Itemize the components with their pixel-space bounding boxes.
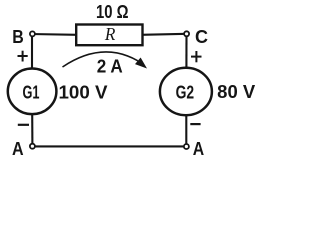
node C terminal circle xyxy=(184,31,189,36)
node A right terminal circle xyxy=(184,144,189,149)
current arrow arc 2 A xyxy=(63,52,148,69)
wire top-left (node B to resistor) xyxy=(30,33,77,36)
minus polarity mark G2 xyxy=(190,123,200,125)
svg-text:2 A: 2 A xyxy=(97,56,123,76)
svg-text:R: R xyxy=(104,24,115,44)
generator G1 circle xyxy=(8,69,57,115)
wire top-right (resistor to node C) xyxy=(141,34,187,35)
wire bottom (node A to node A) xyxy=(32,145,186,147)
plus polarity mark G2 xyxy=(191,51,202,62)
plus polarity mark G1 xyxy=(18,51,28,62)
svg-text:A: A xyxy=(193,139,204,159)
svg-text:100 V: 100 V xyxy=(59,82,108,102)
wire right upper (node C down to G2) xyxy=(185,33,187,71)
node A left terminal circle xyxy=(30,144,35,149)
minus polarity mark G1 xyxy=(18,124,29,126)
node B terminal circle xyxy=(30,31,35,36)
wire left lower (G1 down to node A) xyxy=(31,113,33,146)
svg-text:C: C xyxy=(195,27,208,47)
wire left upper (node B down to G1) xyxy=(31,33,33,70)
resistor R box xyxy=(76,25,142,46)
svg-text:10 Ω: 10 Ω xyxy=(96,2,129,22)
svg-text:G1: G1 xyxy=(23,82,40,102)
svg-text:B: B xyxy=(12,27,24,47)
svg-text:80 V: 80 V xyxy=(217,82,255,102)
wire right lower (G2 down to node A) xyxy=(185,114,187,147)
generator G2 circle xyxy=(160,68,212,115)
svg-text:A: A xyxy=(12,139,24,159)
svg-text:G2: G2 xyxy=(176,82,195,102)
